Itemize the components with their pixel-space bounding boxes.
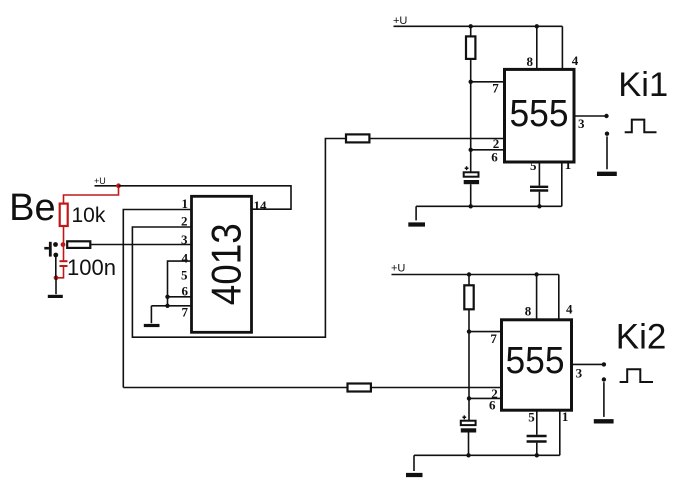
bottom wire (555#1 ground rail) <box>416 205 562 207</box>
wire rail to R5 <box>470 26 472 36</box>
node pin7 junction (555#2) <box>467 329 471 333</box>
node C2/ground junction <box>469 204 473 208</box>
node pin7 junction (555#1) <box>469 80 473 84</box>
node rail/R6 junction <box>467 272 471 276</box>
ground (Ki1) <box>597 172 617 176</box>
node +U left (red junction dot) <box>116 183 121 188</box>
pin 4 wire (4013) <box>168 261 192 306</box>
wire rail to R6 <box>468 275 470 286</box>
node C5/ground junction <box>535 453 539 457</box>
pin 8 wire (555#1) <box>536 26 538 69</box>
push button S1 <box>44 242 58 258</box>
ground (555#1) <box>408 222 425 226</box>
svg-text:3: 3 <box>181 232 188 247</box>
wire R6 to pin7/pin6/C4 <box>468 309 470 420</box>
pin 7 wire (4013) <box>151 305 191 307</box>
node R1/C1/button junction (red dot) <box>61 242 66 247</box>
svg-text:7: 7 <box>182 305 189 320</box>
ground (Ki2) <box>594 419 614 423</box>
svg-text:100n: 100n <box>67 255 116 280</box>
svg-text:+U: +U <box>94 176 106 186</box>
pin 5 wire (555#2) <box>536 410 538 435</box>
node output Ki1 <box>604 114 608 118</box>
node C3/ground junction <box>537 204 541 208</box>
svg-text:10k: 10k <box>72 204 106 227</box>
svg-text:5: 5 <box>181 268 188 283</box>
svg-text:1: 1 <box>562 409 569 424</box>
wire R2 to 4013 pin 3 <box>90 244 191 246</box>
wire +U rail to 4013 pin 14 <box>119 186 292 209</box>
node rail/pin8 junction <box>535 24 539 28</box>
wire R1 bottom to junction and C1 (red) <box>63 226 65 261</box>
svg-text:Be: Be <box>9 187 55 229</box>
svg-text:4: 4 <box>572 53 579 68</box>
svg-text:1: 1 <box>565 157 572 172</box>
power symbol +U (555#2) <box>391 263 559 275</box>
pin 1 wire (555#1) <box>561 162 563 206</box>
pin 7 wire (555#1) <box>471 81 505 83</box>
svg-text:4: 4 <box>182 251 189 266</box>
node pin4/pin6 junction <box>165 295 169 299</box>
wire junction to ground <box>55 278 57 294</box>
resistor R2 (horizontal, to 4013 pin 3) <box>67 241 90 248</box>
wire 4013 pin1 to R4 and 555#2 pin 2 <box>123 387 501 389</box>
svg-text:5: 5 <box>528 409 535 424</box>
IC U3 555 <box>502 320 572 410</box>
node C4/ground junction <box>466 453 470 457</box>
pin 7 wire (555#2) <box>469 331 502 333</box>
wire C2 to bottom rail <box>470 184 472 206</box>
svg-text:Ki1: Ki1 <box>618 66 668 104</box>
svg-text:4: 4 <box>566 302 573 317</box>
wire C1 bottom to ground node (red) <box>56 266 64 278</box>
pin 4 wire (555#2) <box>558 275 560 320</box>
capacitor C4 electrolytic (555#2) <box>461 415 476 432</box>
resistor R6 (555#2 timing) <box>464 285 473 309</box>
svg-text:8: 8 <box>525 304 532 319</box>
pin 2 wire (4013) <box>132 139 346 338</box>
svg-text:6: 6 <box>491 149 498 164</box>
pin 6 wire (555#2) <box>469 397 502 399</box>
IC U1 4013 <box>192 196 252 332</box>
svg-text:7: 7 <box>490 331 497 346</box>
svg-text:3: 3 <box>578 116 585 131</box>
svg-text:1: 1 <box>182 196 189 211</box>
wire C4 to bottom rail <box>468 433 470 456</box>
capacitor C3 (555#1 pin5) <box>530 187 548 191</box>
svg-text:6: 6 <box>182 284 189 299</box>
capacitor C5 (555#2 pin5) <box>527 436 547 442</box>
svg-text:555: 555 <box>506 340 565 382</box>
wire R5 to pin7/pin6/C2 <box>470 59 472 172</box>
node output Ki2 ground terminal <box>602 377 606 381</box>
resistor R1 10k (red, vertical) <box>60 204 68 226</box>
node output Ki1 ground terminal <box>605 132 609 136</box>
IC U2 555 <box>505 69 575 162</box>
capacitor C1 100n (red) <box>60 261 68 266</box>
node output Ki2 <box>602 362 606 366</box>
power symbol +U (left) <box>94 176 119 186</box>
node pin6 junction (555#2) <box>467 396 471 400</box>
wire Ki2 ground terminal to ground <box>603 382 605 417</box>
wire Ki1 ground terminal to ground <box>606 136 608 169</box>
svg-text:5: 5 <box>530 158 537 173</box>
svg-text:+U: +U <box>393 15 407 27</box>
pulse waveform symbol (Ki2) <box>620 369 653 382</box>
pin 1 wire (4013) <box>123 210 191 388</box>
wire C5 to ground rail <box>536 443 538 456</box>
svg-text:+U: +U <box>391 263 405 275</box>
svg-text:4013: 4013 <box>203 223 250 305</box>
ground (left input) <box>48 295 63 298</box>
pin 4 wire (555#1) <box>561 26 563 69</box>
svg-text:Ki2: Ki2 <box>616 318 667 357</box>
wire ground drop (555#1) <box>415 206 417 220</box>
pulse waveform symbol (Ki1) <box>625 120 657 133</box>
svg-text:2: 2 <box>181 214 188 229</box>
svg-text:7: 7 <box>492 80 499 95</box>
pin 6 wire (555#1) <box>471 149 505 151</box>
svg-text:8: 8 <box>527 54 534 69</box>
pin 5 wire (555#1) <box>538 162 540 186</box>
node pin7 junction <box>165 304 169 308</box>
resistor R3 (to 555#1 trigger) <box>346 134 369 142</box>
wire +U to R1 top (red) <box>64 186 119 204</box>
node pin6 junction (555#1) <box>469 148 473 152</box>
pin 3 wire (555#1) <box>574 115 606 117</box>
pin 6 wire (4013) <box>168 296 192 298</box>
node rail/pin8 junction (555#2) <box>534 272 538 276</box>
node C1/button ground junction (red dot) <box>54 275 59 280</box>
ground (555#2) <box>406 473 423 477</box>
pin 3 wire (555#2) <box>572 363 604 365</box>
bottom wire (555#2 ground rail) <box>414 454 560 456</box>
svg-text:3: 3 <box>576 365 583 380</box>
capacitor C2 electrolytic (555#1) <box>464 166 479 184</box>
svg-text:6: 6 <box>489 398 496 413</box>
pin 8 wire (555#2) <box>536 275 538 320</box>
resistor R4 (to 555#2 trigger) <box>348 384 371 392</box>
resistor R5 (555#1 timing) <box>466 36 475 59</box>
ground (4013 pin 7) <box>144 324 160 327</box>
pin 1 wire (555#2) <box>559 410 561 455</box>
power symbol +U (555#1) <box>393 15 562 27</box>
wire button to ground junction <box>55 255 57 278</box>
wire ground drop (555#2) <box>413 455 415 471</box>
svg-text:14: 14 <box>254 198 268 213</box>
svg-text:555: 555 <box>510 93 569 135</box>
node rail/R5 junction <box>469 24 473 28</box>
wire R3 to 555#1 pin 2 <box>369 138 504 140</box>
wire pin 7 to ground <box>150 306 152 323</box>
wire C3 to ground rail <box>538 192 540 207</box>
